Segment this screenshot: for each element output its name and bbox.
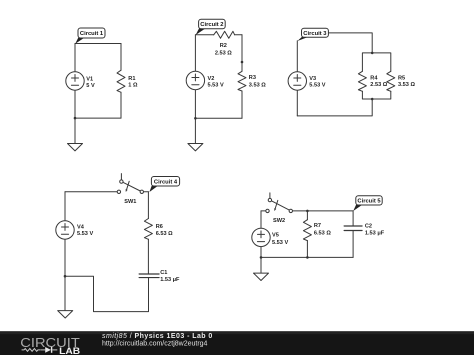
capacitor C2 <box>352 211 354 258</box>
switch SW1 <box>117 174 143 194</box>
switch SW2 <box>266 193 293 213</box>
svg-text:2.53 Ω: 2.53 Ω <box>370 82 387 88</box>
svg-text:V3: V3 <box>309 76 316 82</box>
node circuit2 R3 top <box>241 61 244 64</box>
svg-text:R4: R4 <box>370 76 378 82</box>
svg-text:http://circuitlab.com/cztj8w2e: http://circuitlab.com/cztj8w2eutrg4 <box>102 340 208 347</box>
node circuit5 left bottom junction <box>260 256 263 259</box>
svg-text:6.53 Ω: 6.53 Ω <box>156 231 173 237</box>
text R1 value <box>128 76 138 89</box>
svg-text:5.53 V: 5.53 V <box>272 240 288 246</box>
node circuit1 bottom junction <box>74 117 77 120</box>
svg-text:Circuit 3: Circuit 3 <box>303 31 327 37</box>
text C2 value <box>365 224 385 237</box>
wire circuit5 bottom <box>261 256 353 258</box>
text R5 value <box>398 76 415 89</box>
svg-text:5.53 V: 5.53 V <box>77 231 93 237</box>
svg-text:2.53 Ω: 2.53 Ω <box>215 50 232 56</box>
resistor R7 <box>306 211 308 258</box>
logo resistor zigzag <box>22 349 41 352</box>
svg-text:1 Ω: 1 Ω <box>128 83 138 89</box>
svg-text:smitj85 / Physics 1E03 - Lab 0: smitj85 / Physics 1E03 - Lab 0 <box>102 333 213 340</box>
svg-text:1.53 μF: 1.53 μF <box>160 277 180 283</box>
svg-text:LAB: LAB <box>59 346 81 355</box>
footer bar <box>0 331 474 355</box>
wire circuit4 left <box>64 192 66 311</box>
svg-text:Circuit 1: Circuit 1 <box>80 31 104 37</box>
svg-text:Circuit 5: Circuit 5 <box>357 199 381 205</box>
text V2 value <box>208 76 224 89</box>
svg-text:5.53 V: 5.53 V <box>309 83 325 89</box>
node circuit3 parallel top <box>371 52 374 55</box>
svg-text:SW1: SW1 <box>124 199 136 205</box>
svg-text:C2: C2 <box>365 224 372 230</box>
wire circuit5 top <box>261 210 353 212</box>
svg-text:R7: R7 <box>314 223 321 229</box>
ground circuit4 <box>58 311 73 318</box>
wire circuit3 parallel rails <box>362 53 390 99</box>
capacitor C1 <box>139 274 159 278</box>
svg-text:Circuit 2: Circuit 2 <box>200 22 223 28</box>
wire circuit1 right <box>120 44 122 119</box>
resistor R1 <box>117 70 125 92</box>
voltage source V1 <box>66 72 84 90</box>
svg-text:R1: R1 <box>128 76 135 82</box>
voltage source V3 <box>288 72 306 90</box>
text V3 value <box>309 76 325 89</box>
svg-text:3.53 Ω: 3.53 Ω <box>398 82 415 88</box>
label Circuit 2 <box>196 19 226 35</box>
voltage source V4 <box>56 221 74 239</box>
text V4 value <box>77 224 93 237</box>
node circuit2 bottom junction <box>194 117 197 120</box>
wire circuit3 left <box>296 41 298 116</box>
wire circuit5 left <box>260 211 262 273</box>
text C1 value <box>160 270 180 283</box>
svg-text:R5: R5 <box>398 76 405 82</box>
svg-text:1.53 μF: 1.53 μF <box>365 230 385 236</box>
node circuit3 parallel bottom <box>371 98 374 101</box>
text R4 value <box>370 76 387 89</box>
wire circuit1 bottom <box>75 117 121 119</box>
svg-text:R2: R2 <box>220 43 227 49</box>
svg-text:SW2: SW2 <box>273 218 285 224</box>
voltage source V5 <box>252 228 270 246</box>
resistor R4 <box>358 71 366 91</box>
svg-text:R6: R6 <box>156 224 163 230</box>
svg-text:V5: V5 <box>272 233 279 239</box>
text R3 value <box>249 75 266 89</box>
svg-text:3.53 Ω: 3.53 Ω <box>249 83 266 89</box>
svg-text:5 V: 5 V <box>86 83 95 89</box>
label Circuit 3 <box>297 28 328 41</box>
wire circuit4 top <box>65 191 148 193</box>
text R2 value <box>215 43 232 56</box>
resistor R5 <box>387 71 395 91</box>
svg-text:6.53 Ω: 6.53 Ω <box>314 231 331 237</box>
wire circuit3 top <box>328 33 372 53</box>
svg-text:Circuit 4: Circuit 4 <box>154 179 178 185</box>
svg-text:V4: V4 <box>77 224 85 230</box>
label Circuit 4 <box>149 177 179 193</box>
ground circuit1 <box>68 144 83 151</box>
wire circuit2 top <box>195 34 242 36</box>
label Circuit 1 <box>75 28 105 44</box>
text R6 value <box>156 224 173 237</box>
wire circuit1 left <box>74 44 76 144</box>
text R7 value <box>314 223 331 236</box>
node circuit5 R7 top <box>306 210 309 213</box>
label Circuit 5 <box>353 196 382 211</box>
wire circuit2 right <box>241 35 243 119</box>
wire circuit4 right <box>147 192 149 274</box>
ground circuit5 <box>254 273 269 280</box>
svg-text:V2: V2 <box>208 76 215 82</box>
voltage source V2 <box>186 71 204 89</box>
node circuit4 bottom junction <box>64 275 67 278</box>
node circuit5 R7 bottom <box>306 256 309 259</box>
wire circuit2 left <box>194 35 196 144</box>
wire circuit2 bottom <box>195 117 242 119</box>
resistor R3 <box>238 71 246 91</box>
resistor R6 <box>144 219 152 240</box>
ground circuit2 <box>188 144 203 151</box>
text V1 value <box>86 76 95 89</box>
svg-text:5.53 V: 5.53 V <box>208 83 224 89</box>
svg-text:C1: C1 <box>160 270 167 276</box>
wire circuit1 top <box>75 43 121 45</box>
wire circuit3 bottom <box>297 99 372 116</box>
svg-text:V1: V1 <box>86 76 93 82</box>
text V5 value <box>272 233 288 247</box>
logo diode <box>41 347 58 353</box>
wire circuit4 bottom <box>65 276 149 311</box>
resistor R2 <box>214 31 235 38</box>
svg-text:R3: R3 <box>249 75 256 81</box>
